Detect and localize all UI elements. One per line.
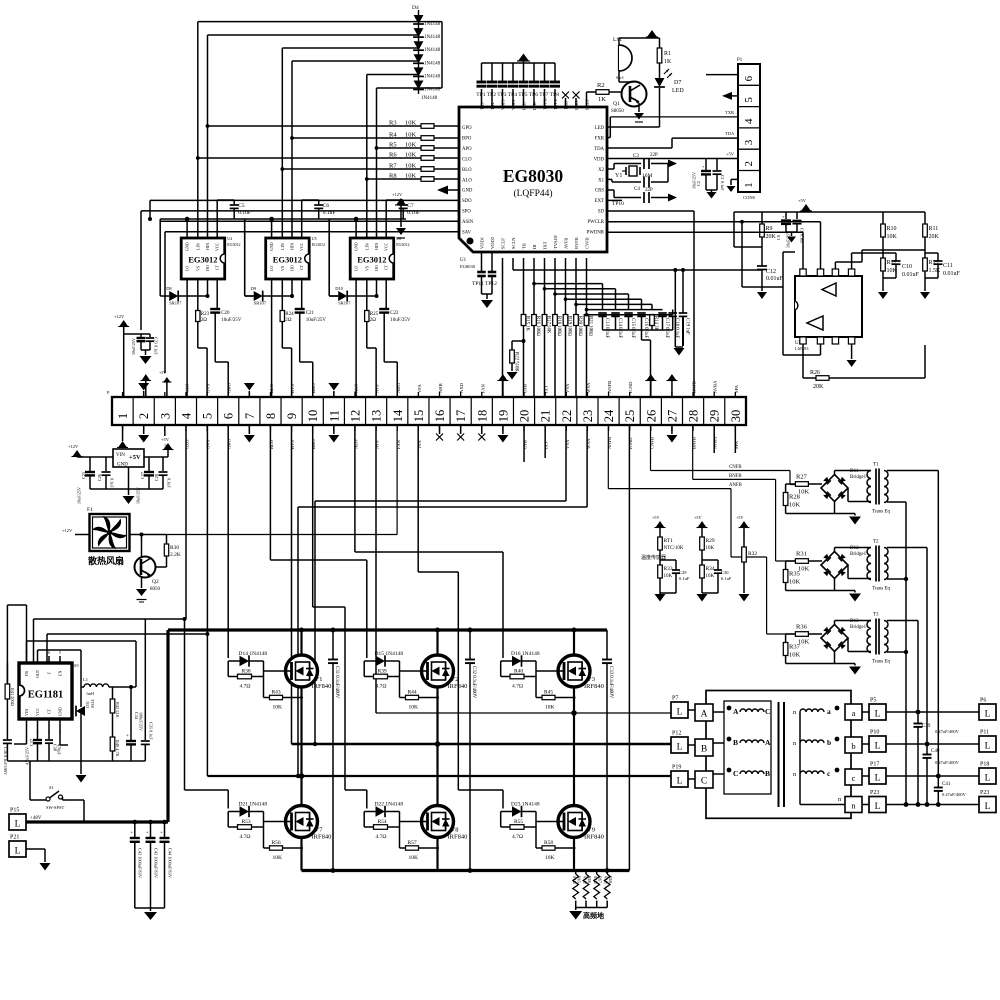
wire pin12 stubs <box>354 392 356 431</box>
ground C8 C9 <box>786 232 797 243</box>
capacitor C1 0.1uF <box>713 159 726 192</box>
svg-text:P11: P11 <box>980 730 989 736</box>
ground R22 <box>507 372 518 380</box>
svg-text:LO: LO <box>185 266 190 271</box>
pin TVPH top <box>543 97 548 110</box>
power +5V pin3 <box>159 370 171 397</box>
svg-text:Bridge1: Bridge1 <box>850 552 867 557</box>
resistor R32 <box>742 547 758 593</box>
node CRS arrow <box>668 194 677 202</box>
ground bridge <box>786 579 861 602</box>
svg-text:HIN: HIN <box>205 243 210 250</box>
svg-text:BPO: BPO <box>462 136 472 141</box>
wire SAV <box>165 232 459 373</box>
resistor R35 10K <box>783 561 800 591</box>
wire pin25 IGND <box>628 425 630 871</box>
pin U3 t1 <box>800 269 806 276</box>
svg-text:AVS: AVS <box>375 384 380 393</box>
wire SPO <box>141 211 459 330</box>
wire HO down <box>290 279 294 298</box>
node BLO <box>269 383 274 393</box>
svg-text:A: A <box>765 738 771 747</box>
nc below pin17 <box>457 425 464 441</box>
wire VS step <box>282 322 291 398</box>
capacitor TP1 <box>476 63 486 107</box>
capacitor TP4 <box>508 63 518 107</box>
resistor R45 10K <box>536 690 576 711</box>
node primary C <box>727 768 770 778</box>
svg-text:24: 24 <box>602 409 616 422</box>
svg-text:C18 0.1uF: C18 0.1uF <box>674 318 679 339</box>
svg-text:R40: R40 <box>514 669 523 675</box>
pin AVFB bottom <box>564 238 569 249</box>
connector P11 r <box>979 730 996 753</box>
svg-text:(LQFP44): (LQFP44) <box>513 188 552 199</box>
node BVS <box>290 384 295 393</box>
capacitor C4 22P <box>634 164 668 194</box>
svg-text:GND: GND <box>354 242 359 251</box>
wire pin13 stubs <box>375 392 377 431</box>
svg-text:ANFB: ANFB <box>729 483 742 488</box>
svg-text:T3: T3 <box>873 613 879 618</box>
wire R41 net <box>7 605 19 684</box>
svg-text:0.1Ω: 0.1Ω <box>572 876 576 884</box>
connector P2 30pin <box>107 390 746 425</box>
capacitor C41 0.47uF/400V <box>934 774 967 805</box>
resistor R49 4.7K <box>110 737 120 761</box>
capacitor C37 4.7uF/25V <box>25 726 42 765</box>
svg-text:B: B <box>701 745 707 755</box>
svg-text:C: C <box>733 769 738 778</box>
svg-text:SR107: SR107 <box>169 301 182 306</box>
svg-text:C7: C7 <box>407 203 414 209</box>
svg-text:B: B <box>765 769 770 778</box>
wire T3 sec bot <box>887 650 908 654</box>
ground U3 out <box>847 344 857 367</box>
svg-text:L: L <box>15 847 21 857</box>
svg-text:VCC: VCC <box>299 242 304 251</box>
wire pin6 gate V1 <box>227 425 229 658</box>
svg-text:R8: R8 <box>389 173 397 180</box>
svg-text:30: 30 <box>729 410 743 423</box>
ground RT1 <box>655 593 677 602</box>
resistor R20 100Ω <box>574 258 583 397</box>
svg-text:APO: APO <box>462 147 472 152</box>
svg-text:EG3012: EG3012 <box>188 255 217 265</box>
connector P1 CON6 <box>737 58 760 200</box>
transistor V3 IRF840 <box>558 655 604 690</box>
wire pin25 stubs <box>629 392 631 431</box>
svg-text:4.7Ω: 4.7Ω <box>240 684 251 690</box>
svg-text:L: L <box>985 710 991 720</box>
svg-text:R57: R57 <box>408 840 417 846</box>
capacitor C12 0.01uF <box>757 266 784 291</box>
wire CT step <box>215 322 228 397</box>
connector P17 <box>869 762 886 785</box>
wire +12V fan <box>62 528 90 535</box>
svg-text:2: 2 <box>137 413 151 419</box>
wire PWM signal 2 <box>208 35 419 238</box>
svg-text:10K: 10K <box>664 574 673 579</box>
svg-text:LIN: LIN <box>195 243 200 250</box>
pin U3 b1 <box>800 337 806 344</box>
wire pin29 stubs <box>713 392 715 431</box>
svg-text:+5V: +5V <box>726 152 735 157</box>
resistor R40 4.7Ω <box>501 661 536 690</box>
wire FB loop <box>27 641 137 687</box>
diode D11 Bridge1 <box>821 469 867 502</box>
svg-text:C14 0.1uF: C14 0.1uF <box>617 318 622 339</box>
svg-text:R3: R3 <box>389 120 397 127</box>
svg-text:22: 22 <box>560 410 574 423</box>
node AHB <box>438 383 443 393</box>
wire pin30 stub <box>734 425 736 453</box>
svg-text:TP3: TP3 <box>497 92 506 98</box>
svg-text:R24: R24 <box>285 312 294 317</box>
svg-text:10uF/25V: 10uF/25V <box>306 318 327 323</box>
svg-text:C: C <box>701 777 707 787</box>
svg-text:TDA: TDA <box>594 147 604 152</box>
node BHO <box>311 383 316 393</box>
svg-text:BNFB: BNFB <box>692 381 697 393</box>
power +5V RT1 <box>652 515 666 537</box>
svg-text:TDA: TDA <box>725 131 735 136</box>
wire P7-A <box>688 710 724 712</box>
wire pin9 phase B <box>291 425 293 744</box>
pin IB bottom <box>532 245 537 250</box>
wire bridge in <box>821 561 822 565</box>
svg-text:8: 8 <box>264 413 278 419</box>
wire CT step <box>384 322 397 397</box>
svg-text:L: L <box>875 710 881 720</box>
resistor R15 1K <box>521 258 530 397</box>
wire diode bus <box>419 22 443 88</box>
svg-text:C30: C30 <box>721 570 729 575</box>
resistor R21 100Ω <box>584 258 593 397</box>
resistor R66 0.1Ω <box>583 871 593 908</box>
svg-text:EG3012: EG3012 <box>273 255 302 265</box>
wire pin11 stubs <box>333 392 335 431</box>
capacitor C13 0.1uF <box>598 313 609 339</box>
svg-text:10K: 10K <box>706 574 715 579</box>
node VFA <box>417 383 422 393</box>
pin ASIN <box>462 220 474 225</box>
ground P21 <box>26 849 51 871</box>
capacitor C26 0.1uF <box>97 457 115 489</box>
diode D4 (6x 1N4148 column) <box>412 5 441 101</box>
power +5V Q1 <box>646 30 660 48</box>
pin U5 b2 <box>37 719 39 734</box>
pin U3 b3 <box>832 337 838 344</box>
pin SCLP bottom <box>501 238 506 249</box>
svg-text:4.7Ω: 4.7Ω <box>512 834 523 840</box>
wire bridge in <box>821 634 822 638</box>
node BLO b <box>269 439 274 449</box>
svg-text:EG3012: EG3012 <box>357 255 386 265</box>
switch S1 SW-SPST <box>30 761 84 822</box>
ground below pin27 <box>666 425 677 443</box>
svg-text:HO: HO <box>205 265 210 271</box>
capacitor C20 10uF/25V <box>210 279 242 323</box>
svg-text:EG3012: EG3012 <box>227 242 240 247</box>
pin U5 b4 <box>59 719 61 734</box>
svg-text:Bridge1: Bridge1 <box>850 625 867 630</box>
transformer T1 <box>867 463 891 515</box>
svg-text:R5: R5 <box>389 142 397 149</box>
svg-text:C: C <box>765 707 770 716</box>
svg-text:+48V: +48V <box>30 816 42 821</box>
svg-text:R56: R56 <box>272 840 281 846</box>
svg-text:FB: FB <box>24 671 29 676</box>
capacitor C25 10uF/25V <box>77 457 96 504</box>
connector T4 c out <box>845 769 862 785</box>
node GVS <box>206 383 211 393</box>
svg-text:IXT: IXT <box>544 385 549 393</box>
wire pin10 stubs <box>312 392 314 431</box>
wire X2 <box>607 164 641 170</box>
resistor R67 0.1Ω <box>593 871 603 908</box>
svg-text:0.1Ω: 0.1Ω <box>593 876 597 884</box>
pin APO <box>462 147 472 152</box>
wire PWCLR <box>607 220 821 287</box>
wire CT step <box>300 322 313 397</box>
wire PWM signal 3 <box>282 48 418 238</box>
wire pin16 stubs <box>439 392 441 431</box>
capacitor C28 0.1uF <box>154 457 172 489</box>
svg-text:SAV: SAV <box>462 231 472 236</box>
svg-text:IRF840: IRF840 <box>584 834 604 841</box>
wire cap step <box>543 287 616 310</box>
svg-text:ALO: ALO <box>353 383 358 393</box>
svg-text:R33: R33 <box>664 566 673 572</box>
svg-text:VS: VS <box>364 266 369 271</box>
svg-text:C32 0.1uF/400V: C32 0.1uF/400V <box>471 666 476 699</box>
svg-text:10uF/25V: 10uF/25V <box>131 338 136 355</box>
wire reg out <box>144 437 174 457</box>
wire bridge right <box>848 565 871 579</box>
svg-text:R27: R27 <box>796 474 808 481</box>
wire P1 pin6 <box>706 74 738 76</box>
node GLO <box>184 383 189 393</box>
power +5V above chip <box>517 54 530 64</box>
wire HO down <box>375 279 379 298</box>
svg-text:P21: P21 <box>10 835 19 841</box>
power +12V pin1 <box>114 314 129 397</box>
svg-text:C34: C34 <box>134 712 139 720</box>
wire pin3 stubs <box>164 392 166 431</box>
transistor V8 IRF840 <box>422 806 468 841</box>
svg-text:1N4148: 1N4148 <box>424 22 441 27</box>
svg-text:L: L <box>677 743 683 753</box>
svg-text:4.7Ω: 4.7Ω <box>512 684 523 690</box>
svg-text:CON6: CON6 <box>743 195 756 200</box>
wire VCC up <box>386 200 403 238</box>
nc below pin16 <box>436 425 443 441</box>
svg-text:C12: C12 <box>766 269 776 275</box>
connector T4 a out <box>845 704 862 720</box>
svg-text:R66: R66 <box>587 876 592 883</box>
wire pin14 stubs <box>396 392 398 431</box>
svg-text:L: L <box>677 708 683 718</box>
svg-text:9: 9 <box>285 413 299 419</box>
node X2 arrow <box>668 160 677 168</box>
resistor R38 4.7Ω <box>228 661 263 690</box>
node GLO b <box>184 439 189 449</box>
wire T1 sec top <box>887 471 938 777</box>
power +5V R29 <box>694 515 708 537</box>
svg-text:+5V: +5V <box>129 454 141 461</box>
svg-text:EG3012: EG3012 <box>312 242 325 247</box>
svg-text:C42 1000uF/63V: C42 1000uF/63V <box>138 848 143 879</box>
svg-text:C6: C6 <box>323 203 330 209</box>
buzzer LS1 <box>613 37 632 80</box>
svg-text:TP4: TP4 <box>508 92 517 98</box>
diode D23 1N4148 <box>501 802 540 818</box>
resistor R43 10K <box>264 690 304 711</box>
wire pin21 stubs <box>544 392 546 431</box>
svg-text:13: 13 <box>370 410 384 423</box>
wire pin23 stubs <box>586 392 588 431</box>
resistor R8 10K <box>365 173 459 182</box>
svg-text:BHO: BHO <box>311 383 316 393</box>
svg-text:D10: D10 <box>335 286 343 291</box>
svg-text:C20: C20 <box>221 311 230 316</box>
connector P12 <box>671 731 688 754</box>
op-amp U1 EG8030 LQFP44 <box>459 107 607 269</box>
node UFB b <box>523 440 528 449</box>
svg-text:10K: 10K <box>789 652 801 659</box>
svg-text:TP10: TP10 <box>612 201 624 207</box>
svg-text:6: 6 <box>743 75 755 81</box>
ground reg <box>90 467 163 504</box>
transistor V9 IRF840 <box>558 806 604 841</box>
svg-text:CT: CT <box>215 264 220 270</box>
pin TS4 top <box>490 102 495 110</box>
capacitor C33 0.1uF/100V <box>602 630 613 873</box>
pin VSP2 top <box>511 99 516 110</box>
wire bridge top <box>835 471 872 475</box>
svg-text:HO: HO <box>374 265 379 271</box>
connector T4 C <box>695 771 713 788</box>
svg-text:R58: R58 <box>544 840 553 846</box>
svg-text:BLO: BLO <box>269 383 274 393</box>
capacitor C36 0.1uF/100V <box>3 740 12 775</box>
resistor R54 4.7Ω <box>364 812 399 841</box>
wire +48V drain bus <box>168 628 607 631</box>
svg-text:4.7Ω: 4.7Ω <box>240 834 251 840</box>
svg-text:A: A <box>701 710 708 720</box>
svg-text:10uF/25V: 10uF/25V <box>692 172 697 189</box>
svg-text:+: + <box>126 734 129 739</box>
wire cap step <box>585 308 663 312</box>
svg-text:Q2: Q2 <box>152 579 159 585</box>
svg-text:IRF840: IRF840 <box>312 834 332 841</box>
svg-text:ALO: ALO <box>462 178 472 183</box>
svg-text:AVBA: AVBA <box>713 380 718 393</box>
wire pin8 stubs <box>269 392 271 431</box>
node BHO b <box>311 439 316 449</box>
capacitor TP5 <box>518 63 528 107</box>
ground Q2 <box>136 577 147 602</box>
svg-text:R21 100Ω: R21 100Ω <box>588 316 593 336</box>
svg-text:1N4148: 1N4148 <box>424 48 441 53</box>
node VVA <box>565 383 570 393</box>
svg-text:SW-SPST: SW-SPST <box>46 805 65 810</box>
node AVBA <box>713 380 718 393</box>
wire pin28 stubs <box>692 392 694 431</box>
svg-text:4.7uF/25V: 4.7uF/25V <box>25 747 30 765</box>
resistor R27 10K <box>795 474 822 496</box>
svg-text:16: 16 <box>433 410 447 423</box>
capacitor C35 0.1uF <box>141 619 154 761</box>
resistor R44 10K <box>400 690 440 711</box>
svg-text:Trans Eq: Trans Eq <box>872 510 891 515</box>
connector T4 B <box>695 739 713 756</box>
svg-text:TXR: TXR <box>725 110 734 115</box>
svg-text:Q1: Q1 <box>613 101 620 107</box>
svg-text:LED: LED <box>595 126 605 131</box>
svg-text:R37: R37 <box>789 644 801 651</box>
svg-text:6: 6 <box>222 413 236 419</box>
ground P1 pin1 <box>727 179 739 192</box>
pin SPO <box>462 210 471 215</box>
svg-text:R7: R7 <box>389 163 397 170</box>
op-amp U5 EG3012 <box>266 236 325 279</box>
pin TVADJ bottom <box>553 235 558 249</box>
svg-text:GLO: GLO <box>184 383 189 393</box>
svg-text:R44: R44 <box>408 690 417 696</box>
svg-text:10K: 10K <box>545 855 555 861</box>
svg-text:FXR: FXR <box>595 136 605 141</box>
svg-text:18: 18 <box>475 410 489 423</box>
svg-text:X2: X2 <box>598 168 604 173</box>
svg-text:R38: R38 <box>242 669 251 675</box>
wire GND pin down <box>60 726 68 761</box>
wire D7 to LED pin <box>607 88 660 127</box>
pin TDA <box>594 147 604 152</box>
svg-text:VCC: VCC <box>35 707 40 716</box>
svg-text:D9: D9 <box>251 286 257 291</box>
svg-text:+5V: +5V <box>736 515 743 520</box>
svg-text:D23 1N4148: D23 1N4148 <box>511 802 540 808</box>
node ANFB b <box>607 437 612 449</box>
svg-text:C17 0.1uF: C17 0.1uF <box>664 318 669 339</box>
svg-text:CNFB: CNFB <box>729 465 742 470</box>
svg-text:CT: CT <box>384 264 389 270</box>
svg-text:V2: V2 <box>451 676 459 683</box>
svg-text:10K: 10K <box>706 546 715 551</box>
svg-text:10K: 10K <box>409 855 419 861</box>
svg-text:R4: R4 <box>389 132 397 139</box>
node GHO b <box>227 438 232 449</box>
node ALO <box>353 383 358 393</box>
svg-text:LED: LED <box>672 88 684 94</box>
svg-text:Trans Eq: Trans Eq <box>872 660 891 665</box>
svg-text:2.2K: 2.2K <box>170 552 181 558</box>
pin ALO <box>462 178 472 183</box>
svg-text:FAN: FAN <box>480 383 485 393</box>
wire gate V3 <box>536 671 558 698</box>
svg-text:LO: LO <box>269 266 274 271</box>
wire +12V bus drivers <box>160 218 406 220</box>
svg-text:IGND: IGND <box>628 381 633 393</box>
wire +48V riser <box>166 630 169 822</box>
svg-text:VDD1: VDD1 <box>480 237 485 249</box>
ground above pin11 <box>328 383 339 397</box>
svg-text:0.47uF/400V: 0.47uF/400V <box>942 792 967 797</box>
svg-text:22P: 22P <box>650 153 658 158</box>
resistor R2 1K <box>596 82 623 103</box>
